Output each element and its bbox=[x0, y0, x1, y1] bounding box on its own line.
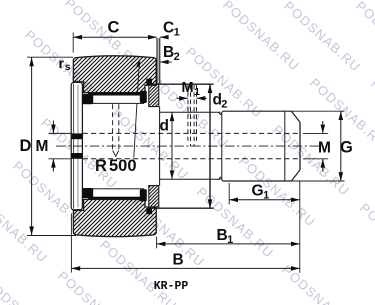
dim G1 extension left bbox=[228, 183, 230, 205]
centerline axis bbox=[56, 145, 323, 147]
dim M1 label bbox=[182, 80, 201, 98]
svg-text:M: M bbox=[36, 138, 49, 155]
dim G line bbox=[339, 111, 344, 181]
seal wedge right top bbox=[146, 79, 152, 85]
collar left face bbox=[159, 107, 161, 186]
dim C line bbox=[73, 35, 157, 40]
svg-text:B: B bbox=[217, 227, 228, 244]
svg-text:2: 2 bbox=[174, 51, 180, 63]
dim d2 label bbox=[213, 92, 228, 111]
dim d line bbox=[170, 112, 175, 179]
svg-text:C: C bbox=[163, 20, 174, 37]
dim M left arrows bbox=[51, 121, 56, 172]
thread notch top bbox=[219, 111, 223, 114]
needle roller top bbox=[89, 93, 144, 104]
thread start line bbox=[221, 113, 223, 181]
dim B extension right bbox=[299, 182, 301, 273]
M nose line top bbox=[49, 132, 72, 134]
thread crest bottom bbox=[223, 180, 292, 182]
dim B line bbox=[71, 266, 299, 271]
dim M right label bbox=[318, 140, 331, 157]
dim M right extensions bbox=[303, 133, 328, 158]
dim M1 arrows bbox=[177, 96, 207, 101]
svg-text:B: B bbox=[163, 44, 174, 61]
dim B1 extension left bbox=[156, 237, 158, 249]
R500 leader line bbox=[134, 59, 140, 158]
dim B2 label bbox=[163, 44, 180, 63]
left washer bbox=[71, 82, 82, 209]
seal left bottom bbox=[82, 188, 93, 198]
svg-text:R: R bbox=[95, 157, 107, 175]
thread notch bottom bbox=[219, 177, 223, 181]
seal right top bbox=[140, 91, 147, 103]
dim C extension left bbox=[72, 33, 74, 53]
outer ring roller top section bbox=[73, 56, 156, 93]
radial hole hidden lines bbox=[113, 104, 119, 156]
rs label bbox=[59, 55, 71, 73]
stud end face bbox=[299, 122, 301, 170]
svg-text:C: C bbox=[108, 19, 120, 37]
dim C label bbox=[108, 19, 120, 37]
dim G extensions bbox=[291, 111, 344, 181]
R500 label bbox=[95, 157, 137, 175]
dim G1 line bbox=[229, 198, 300, 203]
neck line top bbox=[160, 111, 221, 113]
dim C1 label bbox=[163, 20, 180, 39]
stud collar bbox=[149, 84, 214, 208]
svg-text:1: 1 bbox=[194, 86, 200, 98]
axial hole hidden top bbox=[83, 132, 300, 134]
svg-text:1: 1 bbox=[227, 234, 233, 246]
seal wedge right bottom bbox=[146, 208, 152, 214]
svg-text:d: d bbox=[160, 118, 169, 135]
dim B label bbox=[173, 252, 184, 269]
svg-text:D: D bbox=[20, 137, 32, 155]
M nose line bottom bbox=[49, 158, 72, 160]
svg-text:500: 500 bbox=[109, 157, 137, 175]
svg-text:G: G bbox=[340, 139, 353, 157]
svg-text:1: 1 bbox=[263, 190, 269, 202]
M1 hole hidden lines bbox=[188, 85, 197, 147]
stud nose seal band bottom bbox=[71, 153, 82, 159]
dim B1 label bbox=[217, 227, 234, 246]
svg-text:M: M bbox=[318, 140, 331, 157]
dim d2 arrows bbox=[208, 84, 213, 208]
needle roller bottom bbox=[89, 189, 144, 200]
dim G1 label bbox=[252, 183, 270, 202]
stud end chamfer bottom bbox=[291, 170, 300, 181]
seal right bottom bbox=[140, 189, 147, 201]
neck line bottom bbox=[160, 178, 221, 180]
dim G label bbox=[340, 139, 353, 157]
stud nose seal band top bbox=[71, 133, 82, 139]
svg-text:M: M bbox=[182, 80, 194, 96]
dim B2 arrow bbox=[160, 60, 172, 65]
svg-text:1: 1 bbox=[174, 27, 180, 39]
svg-text:s: s bbox=[65, 61, 71, 73]
caption KR-PP bbox=[154, 280, 189, 293]
svg-text:2: 2 bbox=[221, 99, 227, 111]
svg-text:KR-PP: KR-PP bbox=[154, 280, 189, 293]
svg-text:G: G bbox=[252, 183, 264, 200]
outer ring roller bottom section bbox=[73, 200, 156, 237]
dim C1 arrow bbox=[160, 35, 169, 40]
thread crest top bbox=[223, 110, 292, 112]
svg-text:B: B bbox=[173, 252, 184, 269]
svg-text:r: r bbox=[59, 55, 65, 71]
flange washer bottom bbox=[149, 186, 159, 208]
dim C1 extensions bbox=[157, 38, 161, 84]
thread runout line bbox=[284, 111, 286, 180]
dim M left label bbox=[36, 138, 49, 155]
dim B1 line bbox=[157, 242, 300, 247]
seal left top bbox=[82, 94, 93, 104]
flange washer top bbox=[149, 84, 159, 106]
dim M right arrows bbox=[321, 121, 326, 172]
dim D extension bottom bbox=[27, 235, 76, 237]
axial hole hidden bottom bbox=[83, 158, 300, 160]
dim D label bbox=[20, 137, 32, 155]
dim d label bbox=[160, 118, 169, 135]
dim D line bbox=[29, 57, 34, 235]
dim D extension top bbox=[27, 56, 73, 58]
dim B extension left bbox=[70, 214, 72, 273]
stud end chamfer top bbox=[291, 111, 300, 122]
